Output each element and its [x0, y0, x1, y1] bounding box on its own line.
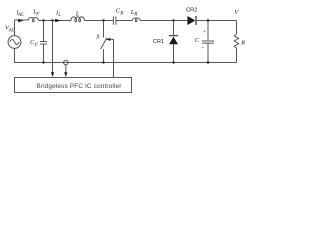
label V: [234, 9, 239, 16]
label L_R: [130, 9, 137, 18]
label V_AC: [5, 24, 16, 33]
svg-text:AC: AC: [17, 13, 25, 18]
wire: right vertical from corner down to resistor: [236, 21, 238, 35]
label -: [201, 46, 204, 51]
svg-text:L: L: [75, 11, 80, 18]
gate drive arrowhead pointing at blade: [106, 38, 111, 41]
current arrow I_L: [55, 19, 61, 22]
capacitor C_B: [113, 17, 116, 25]
node: cap C bottom junction: [207, 61, 209, 63]
arrowhead into controller (sense 1): [51, 72, 54, 77]
node: switch top junction: [102, 19, 104, 21]
label CR1: [153, 39, 164, 45]
wire: top rail left segment: [15, 19, 29, 21]
switch S: blade: [101, 38, 107, 49]
label C: [195, 37, 200, 44]
svg-text:R: R: [240, 40, 245, 47]
label C_B: [116, 8, 124, 17]
node: output cap junction / node V: [207, 19, 209, 21]
svg-text:CR1: CR1: [153, 39, 164, 45]
inductor L_F: [28, 18, 39, 22]
label R: [240, 40, 245, 47]
svg-text:S: S: [96, 33, 100, 40]
svg-text:R: R: [133, 12, 137, 17]
label C_F: [30, 39, 39, 48]
label I_AC: [15, 10, 25, 19]
wire: AC source top to top rail: [14, 21, 16, 36]
inductor L_R: [132, 18, 140, 22]
svg-text:+: +: [203, 30, 206, 35]
node: CR1 bottom junction: [172, 61, 174, 63]
svg-text:−: −: [201, 46, 204, 51]
node: CR1 top junction: [172, 19, 174, 21]
node: sense line top junction: [51, 19, 53, 21]
wire: resistor to bottom rail: [236, 48, 238, 63]
node: switch bottom junction: [102, 61, 104, 63]
diode CR2: [187, 16, 196, 25]
resistor R: [234, 34, 238, 48]
wire: current sense line to controller: [65, 65, 67, 73]
label L_F: [32, 9, 40, 18]
switch S: lower terminal wire: [103, 49, 105, 62]
label L: [75, 11, 80, 18]
switch S: upper terminal wire: [103, 21, 105, 38]
svg-text:F: F: [35, 12, 40, 17]
node: C_F top junction: [42, 19, 44, 21]
wire: gate drive from controller: [110, 39, 113, 77]
label CR2: [186, 7, 197, 13]
wire: AC source bottom to bottom rail: [14, 49, 16, 63]
wire: top rail from L_F to I_L arrow: [39, 20, 71, 22]
arrowhead into controller (sense 2): [64, 72, 67, 77]
current sensor circle on bottom rail: [64, 60, 69, 65]
wire: top rail from CR2 to right corner: [197, 20, 237, 22]
svg-text:C: C: [195, 37, 200, 44]
ac source V_AC: [8, 36, 21, 49]
diode CR1: [169, 21, 178, 63]
svg-text:CR2: CR2: [186, 7, 197, 13]
wire: top rail from L_R to CR2: [140, 20, 187, 22]
controller box: Bridgeless PFC IC controller: [15, 78, 132, 93]
svg-text:F: F: [34, 43, 39, 48]
node: C_F bottom junction: [42, 61, 44, 63]
label I_L: [55, 9, 61, 18]
label S: [96, 33, 100, 40]
svg-text:L: L: [57, 13, 61, 18]
svg-text:V: V: [234, 9, 239, 16]
capacitor C_F: [40, 21, 47, 63]
inductor L: [71, 17, 84, 22]
wire: AC voltage sense line to controller: [52, 21, 54, 73]
wire: top rail from L to C_B: [84, 20, 113, 22]
svg-text:B: B: [120, 11, 123, 16]
svg-text:Bridgeless PFC IC controller: Bridgeless PFC IC controller: [36, 83, 122, 90]
wire: top rail from C_B to L_R: [116, 20, 132, 22]
capacitor C (output, polarized): [202, 21, 214, 63]
label +: [203, 30, 206, 35]
current arrow I_AC: [18, 19, 24, 22]
wire: bottom rail left segment: [15, 62, 237, 64]
